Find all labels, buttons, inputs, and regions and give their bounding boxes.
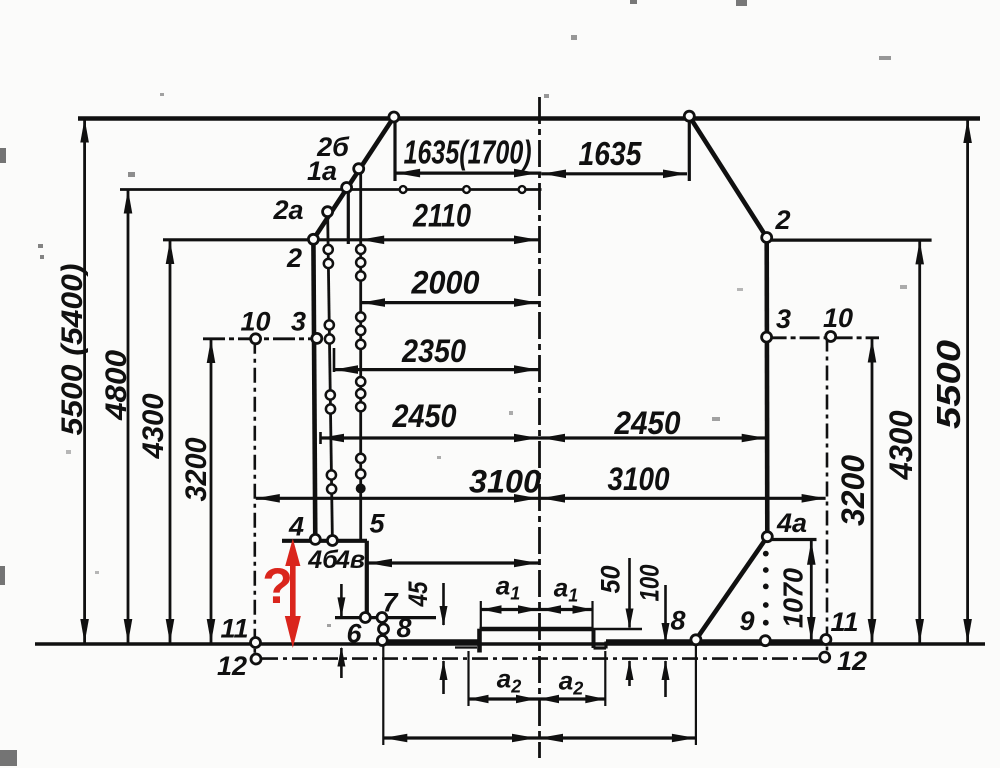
svg-text:4б: 4б	[307, 546, 339, 574]
svg-text:5500: 5500	[930, 339, 967, 429]
point 8 left mid	[379, 624, 389, 634]
svg-text:5: 5	[369, 509, 385, 539]
line 3-10 left dash-dot	[203, 337, 317, 340]
platform top thin extension right	[594, 628, 643, 630]
point 4	[310, 534, 320, 544]
level line 4300 right	[767, 239, 932, 242]
svg-text:6: 6	[346, 619, 362, 649]
svg-text:45: 45	[403, 581, 433, 608]
a2 extension left	[467, 651, 469, 706]
svg-text:2350: 2350	[401, 333, 466, 369]
arrows at 4v level dim	[368, 559, 392, 568]
svg-text:2450: 2450	[614, 405, 681, 441]
svg-text:50: 50	[596, 566, 626, 594]
a2 extension right	[604, 651, 606, 706]
point 10 left	[251, 334, 261, 344]
point 11 right	[821, 635, 831, 645]
arrows 2110	[360, 236, 384, 245]
bottom dimension line	[383, 736, 696, 739]
column of points below 2b	[359, 169, 362, 541]
platform top (rail zone)	[480, 627, 594, 632]
svg-text:12: 12	[217, 651, 247, 681]
svg-text:2а: 2а	[272, 195, 303, 225]
dim 100 arrows	[664, 585, 667, 642]
svg-text:5500 (5400): 5500 (5400)	[56, 263, 89, 435]
point 3 right	[762, 332, 772, 342]
bead point col-2a y249.5	[324, 245, 333, 254]
dim 50 arrows	[628, 558, 631, 628]
point 2 left	[308, 234, 318, 244]
svg-text:3200: 3200	[835, 455, 871, 526]
svg-text:1070: 1070	[778, 568, 809, 628]
dim 4300 left	[169, 240, 172, 643]
gauge outline: bottom line at point 4 level	[282, 539, 367, 543]
red double arrow	[290, 558, 296, 624]
bead point col-2a y409	[326, 404, 335, 413]
svg-text:4300: 4300	[137, 393, 170, 459]
bead point col-2a y489	[327, 484, 336, 493]
svg-text:12: 12	[837, 646, 867, 676]
line 3-10 right dash-dot	[767, 336, 879, 339]
rail top level ground line	[35, 642, 985, 646]
filled bead col-2b	[356, 484, 366, 494]
arrows bottom dim left	[383, 734, 407, 743]
arrows 2000	[361, 298, 385, 307]
gauge outline: left vertical 2-3-4	[313, 239, 315, 541]
dim 5500(5400) left	[83, 119, 86, 644]
extension below top-right corner	[688, 116, 691, 181]
bead point col-2b y344.4	[356, 340, 365, 349]
svg-text:2450: 2450	[392, 398, 457, 434]
point 8 right	[691, 635, 701, 645]
arrows 3100 left	[256, 494, 280, 503]
arrows 2450 left	[320, 434, 344, 443]
point 2 right	[762, 233, 772, 243]
extension below top-left corner	[393, 117, 396, 181]
arrows a1 right	[541, 605, 561, 614]
svg-text:2: 2	[286, 243, 302, 273]
svg-text:1635(1700): 1635(1700)	[404, 134, 532, 171]
arrows 2350	[334, 365, 358, 374]
dimension line 2450	[320, 436, 766, 439]
svg-text:3: 3	[776, 304, 791, 334]
svg-text:8: 8	[396, 613, 411, 643]
dim 45 arrows	[442, 583, 445, 625]
svg-text:?: ?	[262, 558, 293, 614]
point 6	[360, 613, 370, 623]
arrows 1635(1700)	[396, 169, 420, 178]
svg-text:8: 8	[670, 606, 685, 636]
arrows 1635	[542, 170, 566, 179]
svg-text:11: 11	[830, 607, 858, 637]
small step line left	[455, 646, 477, 648]
svg-text:4: 4	[288, 512, 304, 542]
bead point col-2b y330.5	[356, 326, 365, 335]
svg-text:4800: 4800	[100, 350, 133, 421]
dim 5500 right	[966, 119, 969, 643]
svg-text:4300: 4300	[883, 410, 919, 480]
dimension line a2	[469, 697, 606, 700]
bead point col-2a y325	[325, 320, 334, 329]
svg-text:10: 10	[240, 307, 270, 337]
point 3 left	[312, 333, 322, 343]
gauge outline: upper-right diagonal	[689, 116, 766, 237]
step right riser	[604, 642, 607, 649]
gauge outline: vertical 7 to 8	[381, 618, 385, 641]
bead point col-2b y474	[356, 469, 365, 478]
tick for 2450	[319, 432, 322, 444]
bottom dim extension left	[382, 646, 384, 745]
platform left edge	[477, 629, 482, 653]
center axis dash-dot	[538, 97, 541, 758]
dot 4a-9 y605	[763, 602, 769, 608]
dimension line 2350	[334, 368, 540, 371]
top-left corner point	[389, 112, 399, 122]
dimension line at 4v level	[367, 561, 540, 564]
dim 4800 left	[127, 190, 130, 644]
dot 4a-9 y553.6	[763, 551, 769, 557]
point 4b	[327, 536, 337, 546]
point 9	[760, 636, 770, 646]
dot 4a-9 y622.7	[763, 620, 769, 626]
small point on 4800 line #3	[519, 186, 526, 193]
point 11 left	[251, 638, 261, 648]
level line 4300 left / dim 2110	[163, 238, 539, 241]
column of points below 2a	[328, 212, 333, 541]
scan noise specks	[0, 148, 6, 163]
dimension line 2000	[361, 301, 539, 304]
svg-text:11: 11	[220, 614, 248, 644]
step bottom right	[594, 646, 607, 649]
platform right edge	[592, 629, 596, 648]
dimension line 1635(1700)	[396, 172, 541, 175]
arrows a2 left	[469, 695, 489, 704]
reference line at point 4a	[767, 538, 816, 541]
dim 1070	[810, 541, 813, 641]
svg-text:3200: 3200	[180, 437, 213, 501]
svg-text:3100: 3100	[608, 461, 670, 497]
arrows 2450 right	[541, 434, 565, 443]
lower datum dash-dot line	[262, 657, 824, 660]
a1 extension right	[591, 601, 593, 628]
bead point col-2a y339	[325, 334, 334, 343]
stub below point 1a	[347, 188, 350, 244]
bead point col-2b y317	[356, 312, 365, 321]
svg-text:1635: 1635	[579, 135, 643, 172]
a1 extension left	[480, 601, 482, 628]
dot 4a-9 y570	[763, 567, 769, 573]
bead point col-2b y458.4	[356, 454, 365, 463]
level line 4800 with small points	[120, 188, 542, 191]
point 2b	[354, 164, 364, 174]
gauge outline: right vertical 2-3-4a	[764, 238, 769, 537]
svg-text:4в: 4в	[335, 546, 365, 574]
point 10 right	[826, 332, 836, 342]
bead point col-2b y262.5	[356, 258, 365, 267]
bottom dim extension right	[695, 643, 697, 745]
dot 4a-9 y586.4	[763, 584, 769, 590]
bead point col-2b y381.6	[356, 377, 365, 386]
svg-text:2000: 2000	[411, 265, 480, 301]
gauge outline: upper-left diagonal	[313, 117, 394, 239]
dim 4300 right	[918, 240, 921, 643]
arrows bottom dim right	[539, 734, 563, 743]
gauge outline: bottom left heavy	[383, 639, 480, 644]
small point on 4800 line #2	[463, 186, 470, 193]
point 2a	[323, 207, 333, 217]
svg-text:2110: 2110	[412, 198, 471, 234]
svg-text:3: 3	[291, 307, 306, 337]
bead point col-2b y393.6	[356, 389, 365, 398]
bead point col-2a y263.5	[324, 259, 333, 268]
left dash-dot axis through 10-11-12	[254, 339, 257, 655]
small point on 4800 line #1	[400, 186, 407, 193]
bead point col-2b y406.8	[356, 402, 365, 411]
line through points 6-7	[335, 616, 436, 619]
point 12 right	[820, 652, 830, 662]
point 12 left	[251, 654, 261, 664]
arrows a1 left	[482, 605, 502, 614]
bead point col-2a y475	[327, 470, 336, 479]
svg-text:9: 9	[739, 606, 754, 636]
svg-text:100: 100	[635, 565, 665, 602]
svg-text:10: 10	[823, 303, 853, 333]
top-right corner point	[684, 111, 694, 121]
svg-text:1а: 1а	[307, 156, 337, 186]
bead point col-2b y249.4	[356, 245, 365, 254]
top boundary line 5500 level	[78, 116, 980, 121]
svg-text:3100: 3100	[469, 464, 541, 500]
arrows 3100 right	[541, 494, 565, 503]
gauge outline: vertical 4v to 6	[365, 541, 369, 618]
bead point col-2a y395	[326, 390, 335, 399]
tick for 2350	[333, 348, 336, 372]
gauge outline: bottom right heavy	[606, 639, 826, 644]
bead point col-2b y276	[356, 271, 365, 280]
svg-text:2: 2	[774, 205, 790, 235]
gauge outline: right diagonal 8-4a	[696, 537, 767, 640]
small dim arrows at point 6	[340, 584, 343, 617]
dimension line a1	[481, 608, 593, 611]
point 8 left low	[377, 636, 387, 646]
dimension line 3100	[256, 497, 826, 500]
dimension line 1635 right	[541, 172, 687, 175]
point 4a	[762, 532, 772, 542]
dim 3200 left	[210, 339, 213, 643]
arrows a2 right	[539, 695, 559, 704]
point 7	[377, 613, 387, 623]
svg-text:4a: 4a	[776, 508, 807, 538]
dim 3200 right	[871, 339, 874, 644]
point 1a	[342, 183, 352, 193]
right dash-dot axis through 10-11-12	[826, 337, 829, 655]
